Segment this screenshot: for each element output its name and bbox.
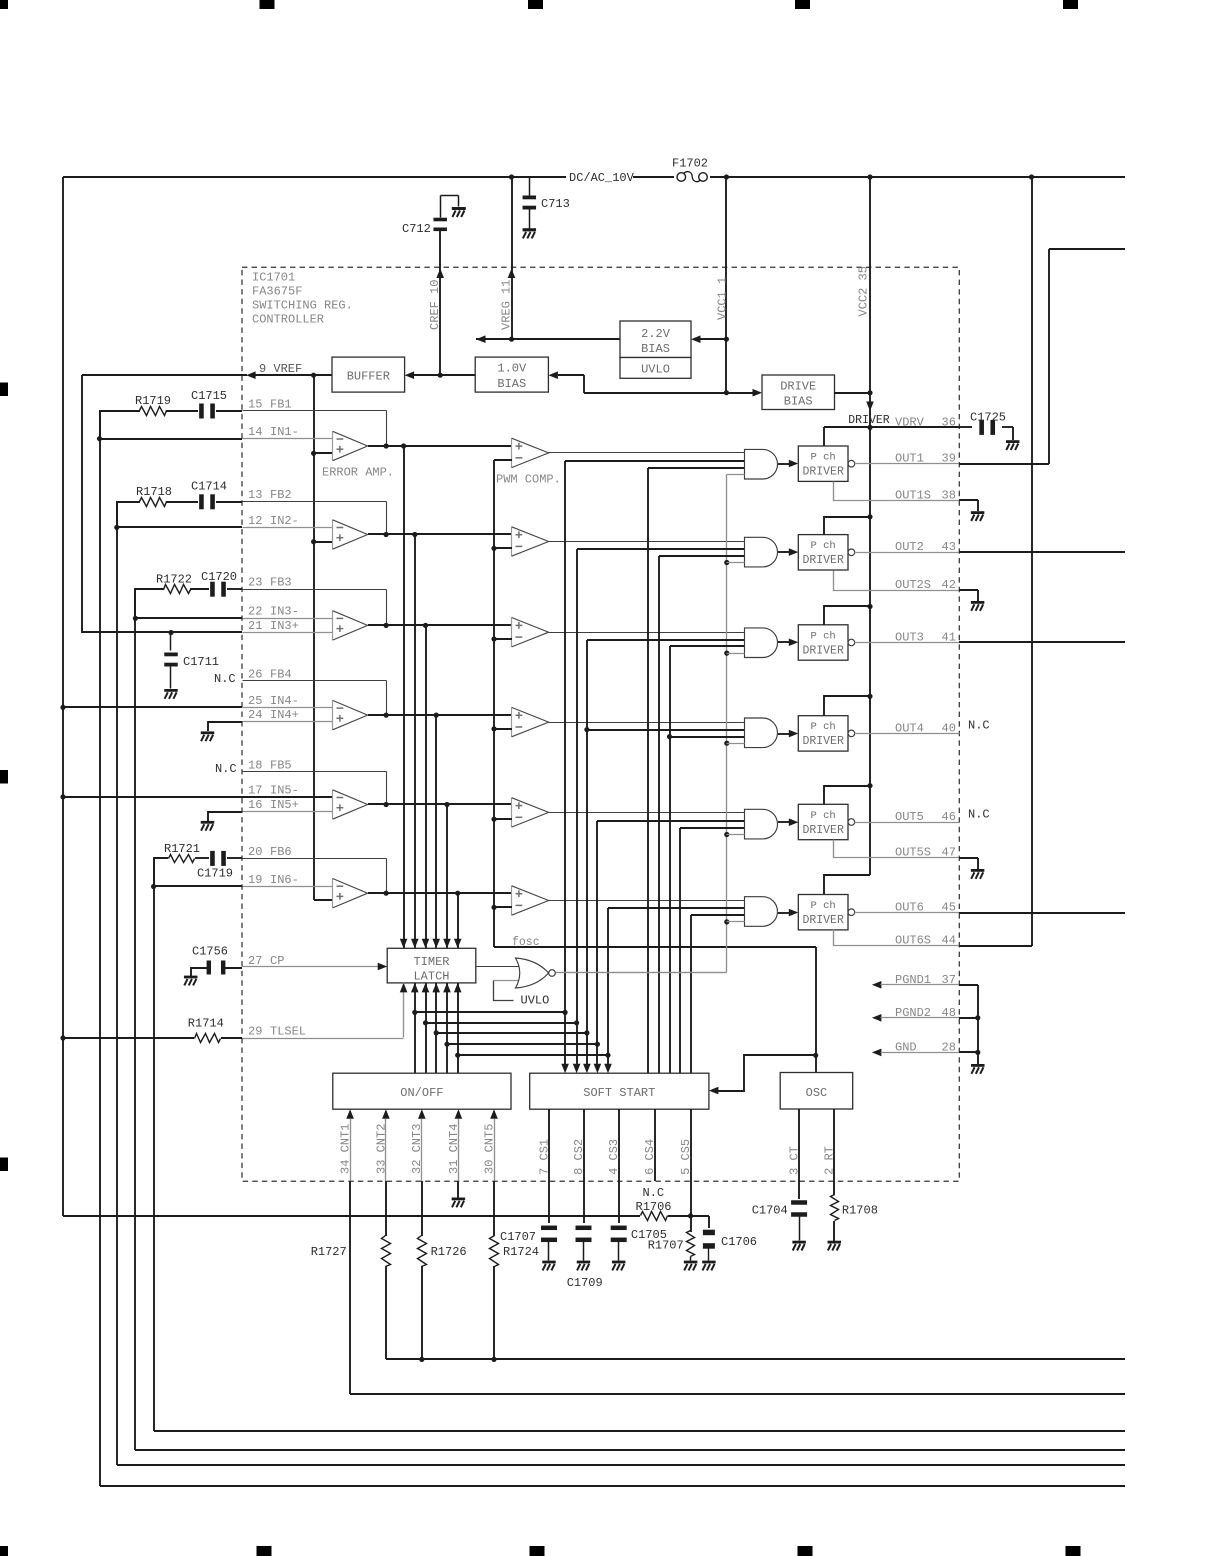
pin label 4 CS3 (607, 1139, 621, 1175)
capacitor C1707 (500, 1226, 557, 1261)
svg-text:FB6: FB6 (270, 845, 292, 859)
wire OUT1S pin net (internal) (834, 482, 960, 501)
wire CNT1 external (350, 1181, 1125, 1394)
op-amp PWM comparator 6 (512, 886, 549, 915)
wire NOR output (gate enable) (556, 972, 727, 974)
wire OSC to SOFT START (709, 1055, 816, 1094)
wire bottom bus (IN2- wrap) (117, 1464, 1125, 1466)
capacitor C1715 (191, 389, 227, 419)
pin label VREG 11 (500, 280, 514, 330)
wire VDRV pin 36 net (824, 426, 972, 428)
wire IN5+ to error amp (243, 811, 333, 813)
wire CNT4 pin net (455, 1109, 463, 1181)
wire OUT4 pin net (internal) (855, 733, 960, 735)
wire FB6 feedback net (243, 859, 387, 894)
pin label 32 CNT3 (410, 1124, 424, 1174)
resistor R1727 (311, 1236, 391, 1267)
capacitor C1705 (611, 1226, 667, 1261)
svg-text:13: 13 (248, 488, 262, 502)
wire CT external (798, 1181, 800, 1199)
wire error amp 4 output (368, 713, 512, 718)
wire IN1- to error amp (243, 438, 333, 440)
ground for OUT1S (971, 511, 985, 521)
resistor R1726 (418, 1236, 467, 1267)
svg-text:VREG 11: VREG 11 (500, 280, 514, 330)
op-amp PWM comparator 3 (512, 618, 549, 647)
AND gate 3 (745, 628, 778, 658)
wire latch-softstart link 2 (426, 1020, 579, 1025)
wire VREF pin 9 net (246, 371, 332, 379)
wire OUT5S pin net (internal) (834, 840, 960, 858)
wire IN1- pin 14 net (100, 438, 242, 440)
wire AND2 in3 link (659, 555, 744, 557)
svg-text:IN4+: IN4+ (270, 708, 299, 722)
wire bottom bus (IN1- wrap) (100, 1485, 1125, 1487)
wire CS5 external (690, 1181, 692, 1232)
svg-text:47: 47 (942, 846, 956, 860)
resistor R1722 (156, 573, 192, 594)
block TIMER LATCH (387, 948, 476, 983)
pin label VCC2 35 (857, 266, 871, 316)
svg-text:R1718: R1718 (136, 485, 172, 499)
wire AND5 in2 link (597, 820, 744, 822)
svg-text:DRIVER: DRIVER (802, 644, 844, 657)
svg-text:R1714: R1714 (188, 1017, 224, 1031)
wire timer bus 1 (in3) (647, 468, 649, 1073)
svg-text:3 CT: 3 CT (788, 1146, 802, 1175)
pin label 5 CS5 (679, 1139, 693, 1175)
wire CNT2 external (385, 1181, 387, 1236)
wire AND1 in3 link (648, 467, 744, 469)
wire VCC2 pin 35 / DRIVER rail (866, 177, 874, 875)
capacitor C713 (512, 177, 570, 229)
svg-text:31 CNT4: 31 CNT4 (447, 1124, 461, 1174)
block 1.0V BIAS (475, 357, 548, 392)
driver block U1 P ch DRIVER (798, 446, 854, 481)
svg-text:R1708: R1708 (842, 1204, 878, 1218)
wire timer bus 5 (in3) (690, 915, 692, 1073)
svg-text:IN4-: IN4- (270, 694, 299, 708)
AND gate 4 (745, 718, 778, 748)
wire CNT4 external (457, 1181, 459, 1198)
svg-text:2.2V: 2.2V (641, 327, 671, 341)
wire CT pin stub (798, 1109, 800, 1181)
wire DC/AC_10V top rail (63, 174, 1125, 179)
node DRIVER label (848, 414, 890, 427)
wire AND4 in3 link (670, 736, 744, 738)
svg-text:DRIVE: DRIVE (780, 380, 816, 394)
svg-text:45: 45 (942, 901, 956, 915)
svg-text:20: 20 (248, 845, 262, 859)
wire OUT1 to top right (959, 249, 1125, 464)
wire comparator 3 output (549, 632, 745, 634)
svg-text:OUT4: OUT4 (895, 722, 924, 736)
svg-text:IN3+: IN3+ (270, 619, 299, 633)
wire error amp 3 output (368, 623, 512, 628)
wire IN3- pin 22 net (135, 617, 242, 619)
wire AND4 in4 link (727, 743, 745, 745)
svg-text:DRIVER: DRIVER (802, 554, 844, 567)
svg-text:C1725: C1725 (970, 411, 1006, 425)
label N.C OUT5 (968, 808, 990, 822)
ground for IN5+ (201, 821, 215, 831)
svg-text:C1720: C1720 (201, 570, 237, 584)
svg-text:FB5: FB5 (270, 758, 292, 772)
wire AND5 output (778, 818, 798, 826)
svg-text:N.C: N.C (215, 762, 237, 776)
pin label 6 CS4 (643, 1139, 657, 1175)
svg-text:DRIVER: DRIVER (802, 824, 844, 837)
wire R1706 to CS5 and C1706 (668, 1213, 709, 1228)
svg-text:OUT3: OUT3 (895, 630, 924, 644)
wire OUT2 pin net (internal) (855, 552, 960, 554)
svg-text:SOFT START: SOFT START (583, 1086, 655, 1100)
capacitor C1711 (164, 633, 219, 689)
svg-text:R1721: R1721 (164, 842, 200, 856)
wire comparator 6 output (549, 900, 745, 902)
svg-text:P ch: P ch (811, 900, 836, 912)
ground for R1708 (828, 1241, 842, 1251)
svg-text:6 CS4: 6 CS4 (643, 1139, 657, 1175)
wire OUT5 pin net (internal) (855, 822, 960, 824)
wire IN4+ pin 24 net (208, 722, 242, 731)
ground for C1704 (792, 1241, 806, 1251)
pin label 30 CNT5 (482, 1124, 496, 1174)
op-amp error amp 5 (333, 790, 368, 819)
wire R1724 to bus (493, 1266, 495, 1359)
svg-text:IN5-: IN5- (270, 783, 299, 797)
wire CNT5 pin net (490, 1109, 498, 1181)
svg-text:C1756: C1756 (192, 945, 228, 959)
wire error amp 2 to timer latch (411, 534, 419, 948)
svg-text:CONTROLLER: CONTROLLER (252, 313, 324, 327)
ground for C1756 (184, 976, 198, 986)
wire OUT1S to ground (959, 500, 978, 511)
wire rail jog to driver 5 (824, 786, 870, 804)
driver block U6 P ch DRIVER (798, 895, 854, 930)
svg-text:FA3675F: FA3675F (252, 285, 302, 299)
wire VREF to error amp 2 plus (314, 541, 333, 543)
svg-text:F1702: F1702 (672, 157, 708, 171)
wire CS4 pin stub (654, 1109, 656, 1181)
svg-text:OUT6: OUT6 (895, 901, 924, 915)
wire OUT5S to ground (959, 858, 978, 869)
svg-text:C1711: C1711 (183, 655, 219, 669)
wire error amp 1 output (368, 443, 512, 448)
wire TLSEL pin 29 net (63, 1037, 404, 1040)
svg-text:C1704: C1704 (752, 1204, 788, 1218)
svg-text:C1715: C1715 (191, 389, 227, 403)
wire bottom bus to R1706 (63, 1215, 640, 1217)
svg-text:BIAS: BIAS (641, 342, 670, 356)
svg-text:UVLO: UVLO (641, 363, 670, 377)
capacitor C1725 (970, 411, 1013, 441)
svg-text:FB2: FB2 (270, 488, 292, 502)
wire VREF to IN3+ wrap (82, 375, 247, 635)
AND gate 1 (745, 449, 778, 479)
wire left outer bus (input net) (60, 177, 65, 1216)
wire timer latch output (476, 966, 519, 968)
wire error amp 6 output (368, 891, 512, 896)
wire PGND2 pin 48 net (872, 1014, 978, 1022)
svg-text:FB3: FB3 (270, 576, 292, 590)
svg-text:OUT2S: OUT2S (895, 578, 931, 592)
wire OUT3 pin net (internal) (855, 642, 960, 644)
wire DRIVE BIAS output to rail (834, 392, 870, 394)
svg-text:41: 41 (942, 630, 956, 644)
node DC/AC_10V label (569, 171, 635, 185)
wire IN6- to error amp (243, 886, 333, 888)
wire AND6 output (778, 909, 798, 917)
wire fosc ramp rail (491, 460, 816, 947)
wire CS3 external (618, 1181, 620, 1223)
wire CNT5 external (493, 1181, 495, 1236)
resistor R1721 (164, 842, 200, 863)
wire R1726 to bus (421, 1266, 423, 1359)
ground for R1707 (684, 1261, 698, 1271)
svg-text:OUT1: OUT1 (895, 452, 924, 466)
svg-text:12: 12 (248, 514, 262, 528)
wire IN5+ pin 16 net (208, 812, 242, 821)
wire IN5- to error amp (242, 796, 333, 798)
wire soft start bus CS1 (in2) (561, 461, 569, 1073)
svg-text:38: 38 (942, 489, 956, 503)
svg-text:C1706: C1706 (721, 1235, 757, 1249)
svg-text:32 CNT3: 32 CNT3 (410, 1124, 424, 1174)
wire AND3 in3 link (670, 645, 744, 647)
wire CS3 pin stub (618, 1109, 620, 1181)
wire CS5 pin stub (690, 1109, 692, 1181)
svg-text:C1707: C1707 (500, 1230, 536, 1244)
ground for CNT4 (452, 1198, 466, 1208)
wire FB5 feedback net (243, 772, 387, 805)
wire error amp 1 to timer latch (400, 446, 408, 948)
wire AND1 output (778, 460, 798, 468)
svg-text:IN5+: IN5+ (270, 798, 299, 812)
wire CNT3 pin net (418, 1109, 426, 1181)
svg-text:IN3-: IN3- (270, 605, 299, 619)
wire AND5 in4 link (727, 834, 745, 836)
wire R1727 to bus (386, 1266, 1125, 1362)
svg-text:BIAS: BIAS (784, 395, 813, 409)
svg-text:DRIVER: DRIVER (848, 414, 890, 427)
wire bottom bus (IN6- wrap) (154, 1430, 1125, 1432)
pin label 33 CNT2 (374, 1124, 388, 1174)
node UVLO label (521, 994, 550, 1008)
svg-text:R1722: R1722 (156, 573, 192, 587)
svg-text:IN2-: IN2- (270, 514, 299, 528)
svg-text:18: 18 (248, 758, 262, 772)
pin label VCC1 1 (716, 277, 730, 320)
wire VREG to 2.2V BIAS (476, 335, 726, 343)
svg-text:P ch: P ch (811, 540, 836, 552)
wire OUT2S to ground (959, 590, 978, 601)
wire IN4+ to error amp (243, 721, 333, 723)
fuse F1702 (672, 157, 708, 182)
wire IN4- to error amp (243, 707, 333, 709)
wire AND2 in4 link (727, 562, 745, 564)
svg-text:23: 23 (248, 576, 262, 590)
pin label 34 CNT1 (339, 1124, 353, 1174)
wire comparator 2 output (549, 541, 745, 543)
wire soft start bus CS3 (in2) (583, 640, 591, 1073)
wire OUT2S pin net (internal) (834, 571, 960, 591)
wire rail jog to driver 2 (824, 517, 870, 535)
svg-text:LATCH: LATCH (413, 970, 449, 984)
ground for C712 (452, 207, 466, 217)
wire rail jog to driver 4 (824, 696, 870, 716)
wire rail jog to driver 3 (824, 606, 870, 625)
svg-text:BIAS: BIAS (497, 377, 526, 391)
svg-text:DRIVER: DRIVER (802, 466, 844, 479)
wire FB3 feedback net (243, 590, 387, 626)
wire FB4 feedback net (243, 681, 387, 716)
wire latch-softstart link 4 (447, 1042, 600, 1047)
wire PGND1 pin 37 net (872, 981, 978, 989)
wire FB1 feedback net (243, 411, 387, 447)
wire error amp 5 output (368, 802, 512, 807)
wire AND3 in2 link (587, 639, 744, 641)
svg-text:46: 46 (942, 810, 956, 824)
wire IN5- pin 17 net (63, 796, 242, 798)
pin label CREF 10 (428, 280, 442, 330)
svg-text:R1724: R1724 (503, 1245, 539, 1259)
svg-text:36: 36 (942, 415, 956, 429)
wire timer latch bottom bus 4 (443, 983, 451, 1073)
ground for OUT5S (971, 869, 985, 879)
op-amp PWM comparator 5 (512, 798, 549, 827)
label N.C FB5 (215, 762, 237, 776)
label N.C FB4 (214, 672, 236, 686)
wire timer bus 4 (in3) (679, 828, 681, 1073)
wire timer latch bottom bus 3 (432, 983, 440, 1073)
svg-text:29: 29 (248, 1024, 262, 1038)
svg-text:DRIVER: DRIVER (802, 735, 844, 748)
svg-text:R1726: R1726 (431, 1245, 467, 1259)
svg-text:P ch: P ch (811, 452, 836, 464)
wire fosc to OSC (813, 947, 818, 1072)
op-amp PWM comparator 1 (512, 438, 549, 467)
svg-text:25: 25 (248, 694, 262, 708)
driver block U4 P ch DRIVER (798, 716, 854, 751)
svg-text:FB4: FB4 (270, 667, 292, 681)
svg-text:C1714: C1714 (191, 480, 227, 494)
svg-text:R1706: R1706 (636, 1200, 672, 1214)
wire error amp 4 to timer latch (432, 715, 440, 948)
svg-text:17: 17 (248, 783, 262, 797)
svg-text:VCC1 1: VCC1 1 (716, 277, 730, 320)
svg-text:R1719: R1719 (135, 394, 171, 408)
op-amp error amp 6 (333, 879, 368, 908)
wire AND3 in4 link (727, 653, 745, 655)
block 2.2V BIAS (620, 321, 691, 358)
wire AND6 in2 link (608, 907, 744, 909)
resistor R1724 (490, 1236, 540, 1267)
svg-text:C1719: C1719 (197, 867, 233, 881)
block BUFFER (332, 357, 405, 392)
capacitor C1719 (197, 851, 233, 881)
wire RT external (833, 1181, 835, 1195)
wire AND5 in3 link (680, 827, 744, 829)
wire CS1 external (548, 1181, 550, 1223)
wire comparator 1 output (549, 452, 745, 454)
wire VREG pin 11 net (508, 177, 516, 342)
svg-text:IN1-: IN1- (270, 425, 299, 439)
wire R1722 branch (135, 589, 242, 618)
label PWM COMP. (496, 473, 561, 487)
wire AND1 in4 link (727, 474, 745, 476)
wire PGND riser (975, 985, 980, 1064)
wire CNT2 pin net (382, 1109, 390, 1181)
svg-text:ON/OFF: ON/OFF (400, 1086, 443, 1100)
driver block U3 P ch DRIVER (798, 625, 854, 660)
wire VCC1 to 1.0V BIAS (548, 371, 726, 393)
wire CS1 pin stub (548, 1109, 550, 1181)
svg-text:TIMER: TIMER (413, 955, 449, 969)
svg-text:P ch: P ch (811, 721, 836, 733)
wire timer bus 3 (in3) (669, 646, 671, 1073)
svg-text:26: 26 (248, 667, 262, 681)
svg-text:42: 42 (942, 578, 956, 592)
pin label 9 VREF (259, 362, 302, 376)
svg-text:24: 24 (248, 708, 262, 722)
wire OUT6S riser (959, 177, 1032, 946)
svg-text:P ch: P ch (811, 630, 836, 642)
wire AND4 in2 link (587, 729, 744, 731)
wire AND2 in2 link (577, 548, 744, 550)
op-amp PWM comparator 4 (512, 707, 549, 736)
ground for C1705 (612, 1261, 626, 1271)
node AND4 in3 tap (667, 734, 672, 739)
pin label 31 CNT4 (447, 1124, 461, 1174)
driver block U2 P ch DRIVER (798, 535, 854, 570)
svg-text:27: 27 (248, 954, 262, 968)
svg-text:CP: CP (270, 954, 284, 968)
op-amp error amp 4 (333, 700, 368, 729)
node fosc label (512, 936, 540, 949)
svg-text:OSC: OSC (806, 1086, 828, 1100)
pin label 3 CT (788, 1146, 802, 1175)
wire left bus IN2- (114, 502, 119, 1465)
wire AND1 in2 link (565, 460, 744, 462)
svg-text:BUFFER: BUFFER (347, 370, 390, 384)
svg-text:C712: C712 (402, 222, 431, 236)
svg-text:fosc: fosc (512, 936, 540, 949)
wire OUT6S pin net (internal) (834, 930, 960, 946)
capacitor C1704 (752, 1200, 807, 1240)
wire IN3+ to error amp (243, 632, 333, 634)
wire UVLO input to NOR (494, 981, 519, 1001)
block UVLO (620, 358, 691, 379)
wire error amp 3 to timer latch (422, 625, 430, 948)
svg-text:30 CNT5: 30 CNT5 (482, 1124, 496, 1174)
IC1701 boundary box (dashed) (242, 267, 959, 1181)
resistor R1706 (636, 1186, 672, 1221)
block ON/OFF (333, 1073, 511, 1109)
wire comparator 5 output (549, 812, 745, 814)
wire rail jog to driver 6 (824, 875, 870, 894)
wire error amp 5 to timer latch (443, 804, 451, 948)
capacitor C1714 (191, 480, 227, 510)
svg-text:N.C: N.C (643, 1186, 665, 1200)
ground for IN4+ (201, 731, 215, 741)
ground for C1709 (577, 1261, 591, 1271)
svg-text:C713: C713 (541, 197, 570, 211)
wire latch-softstart link 5 (458, 1053, 611, 1058)
wire IN2- pin 12 net (117, 526, 242, 528)
wire IN6- pin 19 net (154, 885, 242, 887)
block DRIVE BIAS (762, 375, 835, 410)
